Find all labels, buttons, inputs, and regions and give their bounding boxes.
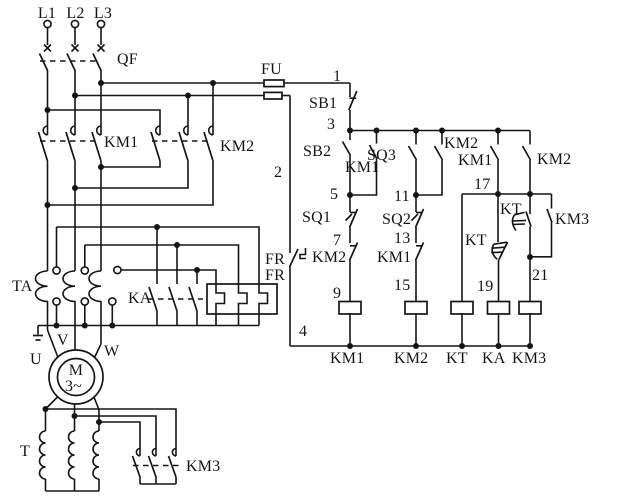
pushbutton SB2	[303, 131, 351, 196]
wire TA2 secondary to FR heater2	[85, 245, 239, 284]
junction KA contact1 tap	[154, 224, 160, 230]
junction TA2 bottom	[82, 305, 88, 328]
wire KM2 pole2 bottom to phase2	[75, 161, 188, 188]
current transformer TA	[12, 266, 121, 305]
junction L3 tap	[98, 80, 104, 86]
wire phase2 QF to TA	[74, 70, 76, 271]
motor M	[49, 350, 103, 404]
svg-text:13: 13	[394, 230, 410, 247]
wire line1 feed to FU	[101, 82, 350, 84]
svg-text:SQ1: SQ1	[302, 209, 331, 226]
contact KM1 aux self-hold	[345, 128, 380, 196]
wire L1 to KM2 pole1	[48, 110, 161, 135]
junction coil KT	[459, 343, 465, 349]
wire motor lead3	[94, 397, 99, 422]
pushbutton SB1	[309, 91, 357, 131]
thermal contact FR	[265, 248, 306, 346]
node 17	[474, 176, 533, 197]
node L2	[66, 5, 84, 28]
svg-text:1: 1	[333, 68, 341, 85]
node L3	[94, 5, 112, 28]
junction phase3 to KM2 pole1	[98, 164, 104, 170]
junction coil KA	[496, 343, 502, 349]
svg-text:15: 15	[394, 277, 410, 294]
junction coil KM1	[347, 343, 353, 349]
svg-text:FR: FR	[265, 267, 285, 284]
svg-text:KM2: KM2	[444, 135, 478, 152]
svg-text:KT: KT	[500, 201, 522, 218]
thermal relay FR heater block	[207, 284, 277, 326]
contact KM2 interlock NC	[312, 243, 358, 303]
contact KM3 aux self-hold	[530, 194, 589, 257]
junction KA contact3 tap	[194, 267, 200, 273]
contact KM2 aux to node17	[523, 131, 572, 195]
contact KM1 interlock NC	[377, 243, 424, 303]
coil KT	[446, 302, 473, 368]
svg-text:M: M	[69, 362, 83, 379]
wire L2 drop to QF	[74, 28, 76, 45]
wire secondary common bus	[38, 325, 259, 327]
wire rotor3 to KM3 pole1	[99, 422, 140, 456]
relay KA contacts	[128, 227, 203, 326]
svg-text:KM2: KM2	[220, 138, 254, 155]
svg-text:L1: L1	[38, 5, 56, 22]
wire L3 drop to QF	[100, 28, 102, 45]
junction TA1 bottom	[54, 305, 60, 328]
coil KM1	[330, 302, 364, 368]
wire L2 stub to KM2 pole2	[187, 96, 189, 136]
junction rotor2	[72, 413, 78, 419]
junction phase2 to KM2 pole2	[72, 185, 78, 191]
contact KT delayed NC	[465, 194, 508, 302]
svg-text:QF: QF	[117, 51, 138, 68]
svg-text:KA: KA	[482, 350, 506, 367]
junction rotor3	[96, 419, 102, 425]
svg-text:KT: KT	[465, 232, 487, 249]
wire line2 feed to FU	[75, 95, 290, 97]
svg-text:21: 21	[532, 267, 548, 284]
node L1	[38, 5, 56, 28]
node 11	[394, 188, 419, 205]
svg-text:FU: FU	[261, 61, 282, 78]
junction coil KM3	[527, 343, 533, 349]
svg-text:KM3: KM3	[186, 458, 220, 475]
svg-text:KM3: KM3	[512, 350, 546, 367]
ground	[33, 326, 43, 341]
junction coil KM2	[413, 343, 419, 349]
wire bus3	[350, 130, 530, 132]
wire node17 rail	[462, 193, 552, 195]
svg-text:SB2: SB2	[303, 143, 331, 160]
svg-text:SQ3: SQ3	[367, 147, 396, 164]
svg-text:2: 2	[274, 164, 282, 181]
contactor KM2 main contacts	[151, 126, 254, 161]
wire L3 stub to KM2 pole3	[212, 83, 214, 135]
coil KM2	[394, 302, 428, 368]
resistor T coil1	[40, 409, 46, 491]
fuse FU2	[264, 92, 282, 99]
wire line2 drop	[289, 96, 291, 254]
svg-text:W: W	[104, 343, 120, 360]
svg-text:SQ2: SQ2	[382, 211, 411, 228]
svg-text:KM2: KM2	[312, 249, 346, 266]
contact KM1 aux to node17	[458, 128, 501, 195]
wire rotor1 to KM3 pole3	[46, 409, 177, 456]
svg-text:U: U	[30, 351, 42, 368]
contact KM2 aux to node11	[416, 128, 478, 196]
contactor KM1 main contacts	[39, 126, 139, 161]
svg-text:L3: L3	[94, 5, 112, 22]
coil KA	[482, 302, 510, 368]
wire TA1 secondary up	[56, 227, 58, 267]
wire KM2 pole1 bottom to phase3	[101, 161, 160, 167]
junction KM2 pole3 tap	[210, 80, 216, 86]
svg-text:5: 5	[330, 186, 338, 203]
svg-text:KM1: KM1	[458, 152, 492, 169]
wire phase1 to motor U	[48, 301, 59, 358]
svg-text:KM1: KM1	[377, 249, 411, 266]
junction KA contact2 tap	[174, 242, 180, 248]
node 3	[327, 116, 353, 134]
svg-text:SB1: SB1	[309, 95, 337, 112]
junction L1 tap	[45, 107, 51, 113]
wire L1 drop to QF	[47, 28, 49, 45]
junction TA3 bottom	[109, 305, 115, 328]
svg-text:L2: L2	[66, 5, 84, 22]
limit switch SQ2	[382, 195, 424, 243]
wire motor lead2	[74, 404, 76, 416]
fuse FU1	[264, 80, 284, 87]
wire KM3 common bus	[140, 477, 176, 484]
circuit breaker QF	[40, 45, 138, 71]
node 5	[330, 186, 353, 203]
wire line1 corner	[349, 83, 351, 97]
svg-text:KM3: KM3	[555, 211, 589, 228]
wire TA1 secondary to FR heater3	[57, 227, 260, 284]
svg-text:17: 17	[474, 176, 490, 193]
svg-text:9: 9	[333, 285, 341, 302]
node 21	[527, 254, 548, 284]
contactor KM3 contacts	[133, 449, 221, 478]
svg-text:7: 7	[333, 232, 341, 249]
junction phase1 to KM2 pole3	[45, 202, 51, 208]
svg-text:KT: KT	[446, 350, 468, 367]
wire KM2 pole3 bottom to phase1	[48, 161, 214, 205]
svg-text:KM1: KM1	[330, 350, 364, 367]
wire phase2 to motor V	[74, 301, 76, 351]
wire motor lead1	[46, 397, 59, 410]
wire control bottom rail	[290, 345, 530, 347]
svg-text:19: 19	[477, 278, 493, 295]
svg-text:KM1: KM1	[104, 134, 138, 151]
limit switch SQ3	[367, 128, 419, 196]
wire TA2 secondary up	[84, 245, 86, 267]
contact KT delayed NO	[500, 194, 531, 257]
svg-text:11: 11	[394, 188, 410, 205]
svg-text:4: 4	[299, 323, 307, 340]
wire TA3 secondary to FR heater1	[121, 270, 216, 284]
svg-text:T: T	[20, 443, 30, 460]
coil KM3	[512, 257, 546, 367]
wire T star bus	[46, 490, 100, 492]
svg-text:TA: TA	[12, 278, 33, 295]
svg-text:V: V	[57, 332, 69, 349]
junction L2 tap	[72, 93, 78, 99]
resistor T coil2	[69, 416, 75, 491]
resistor T coil3	[93, 422, 99, 491]
svg-text:FR: FR	[265, 251, 285, 268]
svg-text:3: 3	[327, 116, 335, 133]
wire phase3 QF to TA	[100, 70, 102, 271]
limit switch SQ1	[302, 195, 358, 243]
svg-text:3~: 3~	[65, 378, 82, 395]
wire phase1 QF to TA	[47, 70, 49, 271]
junction rotor1	[43, 406, 49, 412]
wire KT coil branch	[461, 194, 463, 302]
junction KM2 pole2 tap	[185, 93, 191, 99]
svg-text:KM2: KM2	[537, 151, 571, 168]
wire phase3 to motor W	[95, 301, 102, 358]
svg-text:KM2: KM2	[394, 350, 428, 367]
wire rotor2 to KM3 pole2	[75, 416, 157, 456]
